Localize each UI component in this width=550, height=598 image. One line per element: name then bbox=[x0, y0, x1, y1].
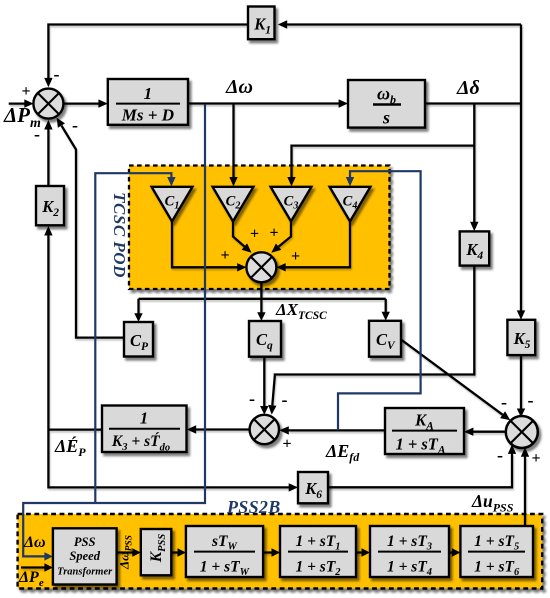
arrow: into lead-lag 3 bbox=[452, 548, 461, 556]
wire: d-delta down to K5 bbox=[520, 104, 522, 312]
svg-text:Δω: Δω bbox=[23, 534, 46, 551]
block lead-lag (1+sT1)/(1+sT2) bbox=[280, 526, 356, 578]
wire: top feedback line into K1 bbox=[286, 23, 521, 25]
block KA/(1+sTA) bbox=[385, 408, 464, 457]
block 1/(K3+sT'do) bbox=[102, 406, 187, 454]
gain triangle C4 bbox=[330, 187, 371, 222]
wire: d-omega drop to C2 bbox=[232, 104, 234, 179]
wire: lead-lag 2 to lead-lag 3 bbox=[449, 551, 452, 553]
svg-text:1 + sT6: 1 + sT6 bbox=[474, 559, 520, 579]
svg-text:Speed: Speed bbox=[69, 549, 100, 563]
svg-text:Ms + D: Ms + D bbox=[121, 106, 174, 125]
svg-text:Δδ: Δδ bbox=[456, 77, 480, 99]
wire: duPSS from PSS block up to summer S4 bbox=[524, 457, 526, 527]
arrow: navy into C1 top bbox=[167, 177, 175, 186]
arrow: dXtcsc into CV bbox=[382, 312, 390, 321]
wire: KPSS to washout block bbox=[171, 551, 178, 553]
wire: d-delta line from wb/s to right corner bbox=[425, 102, 521, 104]
block lead-lag (1+sT3)/(1+sT4) bbox=[370, 526, 449, 578]
wire: K4 output elbow to summer S3 bbox=[272, 266, 474, 406]
svg-text:TCSC POD: TCSC POD bbox=[110, 192, 129, 278]
block wb/s bbox=[348, 80, 425, 128]
block PSS speed transformer bbox=[53, 528, 117, 584]
svg-text:-: - bbox=[282, 390, 288, 410]
block washout sTw/(1+sTw) bbox=[186, 526, 263, 578]
wire: C2 output diagonal to summer S2 bbox=[233, 221, 244, 246]
svg-text:+: + bbox=[282, 436, 291, 453]
svg-text:-: - bbox=[249, 389, 255, 409]
wire: S2 output dXtcsc down bbox=[260, 282, 262, 298]
navy net: d-omega tap to PSS transformer and C1 bbox=[23, 105, 205, 557]
wire: C3 output diagonal to summer S2 bbox=[279, 221, 291, 246]
wire: dPe input arrow line bbox=[21, 566, 45, 568]
arrow: C2 diagonal into S2 bbox=[242, 243, 252, 252]
arrow: dXtcsc into Cq bbox=[257, 312, 265, 321]
summer S1 (mechanical torque) bbox=[33, 89, 63, 119]
wire: KA output dEfd line to summer S3 bbox=[289, 429, 386, 431]
wire: CP output elbow and diagonal to summer S1 bbox=[62, 126, 125, 338]
svg-text:1 + sT2: 1 + sT2 bbox=[295, 559, 341, 579]
arrow: into C3 top bbox=[287, 177, 295, 186]
svg-text:1: 1 bbox=[144, 84, 153, 103]
block KPSS bbox=[141, 529, 172, 575]
svg-text:1 + sT4: 1 + sT4 bbox=[387, 559, 432, 579]
svg-text:-: - bbox=[501, 392, 507, 412]
block CV bbox=[369, 321, 401, 357]
wire: drop into CP bbox=[137, 299, 139, 314]
summer S2 (TCSC POD) bbox=[246, 252, 276, 282]
arrow: into 1/(K3+sTdo) bbox=[187, 425, 196, 433]
block CP bbox=[124, 322, 153, 357]
svg-text:-: - bbox=[528, 390, 534, 410]
wire: washout to lead-lag 1 bbox=[263, 551, 272, 553]
svg-text:1 + sT1: 1 + sT1 bbox=[295, 533, 340, 553]
arrow: into K5 top bbox=[517, 310, 525, 319]
arrow: into washout bbox=[178, 548, 186, 556]
wire: S1 output to 1/(Ms+D) bbox=[63, 102, 99, 104]
arrow: K2 output into S1 bottom bbox=[44, 120, 52, 130]
svg-text:+: + bbox=[21, 83, 30, 100]
gain triangle C3 bbox=[271, 187, 312, 222]
wire: C4 output to summer S2 bbox=[285, 221, 350, 267]
wire: drop into Cq bbox=[260, 299, 262, 313]
block K4 bbox=[460, 231, 490, 265]
arrow: into K1 right side bbox=[278, 20, 287, 28]
arrow: dPm into S1 bbox=[24, 99, 33, 107]
arrow: into KPSS bbox=[132, 548, 141, 556]
arrow: CP diagonal into S1 bbox=[57, 118, 65, 128]
wire: Cq output down to summer S3 bbox=[263, 357, 265, 407]
arrow: CV diagonal into S4 bbox=[500, 411, 510, 420]
wire: S3 output into 1/(K3+sTdo) bbox=[195, 428, 250, 430]
PSS2B dashed orange box bbox=[18, 514, 543, 589]
wire: S4 output into KA block bbox=[472, 431, 506, 433]
arrow: dXtcsc into CP bbox=[134, 313, 142, 322]
arrow: into C2 top bbox=[229, 177, 237, 186]
svg-text:-: - bbox=[497, 445, 503, 465]
svg-text:+: + bbox=[291, 248, 300, 265]
svg-text:1 + sT5: 1 + sT5 bbox=[474, 533, 519, 553]
wire: K1 output to summer S1 top bbox=[48, 25, 248, 79]
TCSC POD dashed orange box bbox=[129, 166, 390, 290]
svg-text:s: s bbox=[382, 108, 390, 128]
arrow: K5 into S4 top bbox=[517, 409, 525, 418]
arrow: C4 into S2 right bbox=[276, 263, 285, 271]
arrow: KA output into S3 right bbox=[279, 426, 289, 434]
arrow: duPSS into S4 bottom bbox=[521, 447, 529, 456]
block K5 bbox=[507, 320, 535, 355]
arrow: navy into C4 top bbox=[346, 177, 354, 186]
svg-text:-: - bbox=[72, 115, 78, 135]
arrow: into lead-lag 2 bbox=[362, 548, 371, 556]
wire: lead-lag 1 to lead-lag 2 bbox=[356, 551, 362, 553]
wire: dE'P drop and run to K6 input bbox=[48, 430, 289, 488]
wire: drop into CV bbox=[385, 299, 387, 313]
wire: d-delta branch to C3 bbox=[292, 146, 475, 179]
arrow: C1 into S2 left bbox=[237, 263, 246, 271]
summer S4 (AVR input) bbox=[506, 416, 538, 448]
wire: K6 output elbow up to summer S4 bbox=[328, 454, 512, 488]
wire: K5 output to summer S4 bbox=[520, 355, 522, 409]
arrow: Cq into S3 top bbox=[260, 406, 268, 415]
svg-text:+: + bbox=[269, 225, 278, 242]
wire: dXtcsc distribution line bbox=[139, 298, 386, 300]
block K1 bbox=[248, 7, 275, 40]
svg-text:Transformer: Transformer bbox=[57, 567, 113, 578]
arrow: S4 output into KA bbox=[464, 428, 473, 436]
wire: K2 output up to summer S1 bbox=[47, 129, 49, 186]
block lead-lag (1+sT5)/(1+sT6) bbox=[460, 526, 533, 578]
arrow: navy into PSS transformer bbox=[44, 552, 53, 560]
svg-text:+: + bbox=[220, 247, 229, 264]
arrow: K6 into S4 bottom bbox=[508, 444, 516, 454]
block K2 bbox=[36, 186, 64, 225]
arrow: into lead-lag 1 bbox=[272, 548, 281, 556]
arrow: K4 line into S3 top-right bbox=[268, 405, 276, 415]
block Cq bbox=[249, 321, 281, 357]
arrow: K1 output into S1 top bbox=[44, 78, 52, 87]
wire: riser to K1 feedback line bbox=[520, 25, 522, 104]
navy net: dEfd tap to C4 bbox=[338, 171, 421, 430]
arrow: into wb/s bbox=[339, 99, 348, 107]
wire: d-delta drop toward K4 bbox=[473, 104, 475, 223]
wire: d-omega line from 1/(Ms+D) to wb/s bbox=[188, 102, 340, 104]
arrow: dE'P into K6 left bbox=[289, 483, 298, 491]
wire: dE'P feedback line left bbox=[48, 428, 102, 430]
arrow: C3 diagonal into S2 bbox=[271, 244, 281, 253]
navy arrowheads bbox=[44, 177, 354, 561]
svg-text:+: + bbox=[531, 450, 540, 467]
wire: C1 output to summer S2 bbox=[172, 221, 238, 267]
svg-text:PSS: PSS bbox=[74, 535, 96, 549]
arrow: dPe into transformer bbox=[44, 563, 53, 571]
block K6 bbox=[298, 472, 328, 503]
arrow: dE'P into K2 bottom bbox=[44, 226, 52, 236]
summer S3 (field voltage) bbox=[250, 415, 279, 444]
svg-text:PSS2B: PSS2B bbox=[226, 497, 281, 517]
wire: CV diagonal to summer S4 bbox=[401, 340, 503, 415]
gain triangle C2 bbox=[213, 187, 254, 222]
svg-text:1 + sT3: 1 + sT3 bbox=[387, 533, 432, 553]
gain triangle C1 bbox=[152, 187, 193, 222]
wire: dE'P rise to K2 input bbox=[47, 235, 49, 430]
wire: transformer to KPSS bbox=[117, 551, 133, 553]
arrow: into K4 top bbox=[470, 222, 478, 231]
block 1/(Ms+D) bbox=[108, 79, 188, 125]
arrow: into 1/(Ms+D) bbox=[98, 99, 107, 107]
svg-text:Δω: Δω bbox=[225, 76, 253, 98]
svg-text:1: 1 bbox=[140, 409, 148, 428]
svg-text:+: + bbox=[250, 226, 259, 243]
wire: input dPm into summer S1 bbox=[9, 102, 25, 104]
svg-text:-: - bbox=[54, 64, 60, 84]
